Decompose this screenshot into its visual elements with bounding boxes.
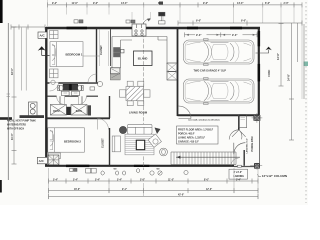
svg-text:2'-0": 2'-0" [284, 2, 289, 5]
svg-text:WITH GFR BOX: WITH GFR BOX [7, 129, 24, 131]
svg-text:9'-1": 9'-1" [122, 189, 127, 191]
hall wall below baths [60, 96, 82, 104]
svg-text:42'-0": 42'-0" [178, 194, 184, 197]
header garage window 1 [187, 27, 198, 30]
svg-text:PORCH: 405.F: PORCH: 405.F [178, 132, 195, 135]
wall bedroom1 right / closet [96, 29, 98, 83]
svg-text:PORCH 405.F: PORCH 405.F [251, 136, 254, 152]
svg-text:5'-4": 5'-4" [117, 178, 122, 181]
extension lines from top dims [48, 0, 303, 99]
island [134, 51, 153, 66]
right dim line C [297, 23, 299, 62]
porch inner wall [243, 150, 245, 166]
svg-text:12'-0": 12'-0" [206, 189, 212, 191]
svg-text:FIRST FLOOR AREA: 1,700S.F: FIRST FLOOR AREA: 1,700S.F [178, 128, 214, 131]
svg-text:TWO CAR GARAGE 4" SLP: TWO CAR GARAGE 4" SLP [194, 70, 227, 73]
scan edge mark left middle [0, 117, 12, 120]
svg-text:GARAGE: 410 S.F: GARAGE: 410 S.F [178, 140, 199, 143]
bench at foot [49, 153, 61, 159]
chair top2 [138, 81, 144, 86]
svg-text:5'-4": 5'-4" [73, 178, 78, 181]
svg-text:9'-2": 9'-2" [52, 2, 57, 5]
left corner dim line [11, 26, 45, 28]
svg-text:14'-0": 14'-0" [237, 2, 244, 5]
foyer wall [238, 116, 240, 131]
sink double [114, 48, 121, 52]
A/C pad hatched [48, 155, 59, 165]
rug hatched [125, 134, 154, 155]
chair bottom1 [127, 101, 133, 106]
svg-text:9'-0": 9'-0" [241, 20, 246, 23]
svg-text:BATH: BATH [53, 110, 60, 113]
right dim line B [291, 23, 293, 140]
counter right run [158, 37, 167, 65]
svg-text:5'-4": 5'-4" [236, 178, 241, 181]
window headers on top wall [66, 27, 260, 167]
foyer door leaf [239, 130, 246, 140]
svg-text:9'-0": 9'-0" [232, 34, 238, 37]
garage interior dim 9-0 / 9-0 [185, 32, 258, 37]
shower center bar [69, 84, 72, 91]
foyer door leaf left [229, 130, 239, 140]
svg-text:5'-4": 5'-4" [95, 178, 100, 181]
left wall [45, 27, 47, 167]
vanity 1 [50, 105, 66, 116]
svg-text:BEDROOM 1: BEDROOM 1 [66, 52, 83, 56]
svg-text:11'-6": 11'-6" [72, 2, 78, 5]
scan edge bar top-left [0, 0, 3, 23]
closet shelf lines [100, 29, 109, 66]
A/C box bottom [37, 157, 47, 163]
svg-text:40GAL. HEAT PUMP TANK: 40GAL. HEAT PUMP TANK [7, 120, 36, 123]
bed1 mid line to wall [83, 55, 100, 57]
garage left wall [177, 29, 179, 116]
right dim line D [303, 24, 305, 99]
bottom wall [45, 165, 234, 167]
chair left [120, 90, 126, 97]
svg-text:9'-0": 9'-0" [203, 2, 208, 5]
wall bedroom1 / baths [47, 82, 98, 84]
left seat [112, 136, 120, 152]
hexagon tags row [101, 171, 104, 175]
svg-text:LIVING ROOM: LIVING ROOM [129, 110, 148, 114]
bedroom2 closet door arc [98, 119, 109, 130]
dark vent tag [159, 12, 166, 16]
steps direction arrow [176, 156, 240, 158]
svg-text:12'-6": 12'-6" [276, 52, 280, 60]
svg-text:6'-0": 6'-0" [265, 2, 270, 5]
scan edge bar bottom-left [0, 180, 2, 193]
svg-text:8'-0": 8'-0" [204, 179, 209, 181]
garage door band 1 on right wall [258, 31, 261, 46]
garage right wall [258, 27, 260, 116]
chair top1 [127, 81, 133, 86]
left small border tick [7, 94, 11, 97]
column bottom (12x12) [250, 163, 262, 170]
header garage window 2 [230, 27, 242, 30]
svg-text:12"x12" COLUMN: 12"x12" COLUMN [262, 174, 287, 178]
column top (12x12) [252, 113, 263, 123]
A/C box top [38, 32, 47, 38]
svg-text:9'-0": 9'-0" [93, 2, 98, 5]
svg-text:5'-8": 5'-8" [140, 179, 145, 181]
bath door arc 1 [57, 97, 65, 105]
left patio double line [22, 28, 27, 91]
sheet left border [7, 23, 9, 180]
bedroom2 right wall [109, 96, 111, 166]
garage bottom wall [178, 114, 259, 116]
top dim labels [52, 2, 289, 23]
svg-text:WATERHEATERS: WATERHEATERS [7, 124, 26, 127]
door tag circle bed1 [97, 81, 102, 86]
bed 2 [48, 128, 85, 152]
counter left run [112, 37, 132, 69]
header bedroom1 window [67, 27, 88, 30]
svg-text:CONC: CONC [268, 69, 271, 77]
bath fixture boxes [61, 91, 69, 95]
svg-text:11'-0": 11'-0" [168, 179, 174, 181]
dark mark on vent line top [159, 2, 163, 5]
dining table hatched [126, 86, 144, 100]
closet right wall [110, 29, 112, 66]
dark bar above heater note [20, 115, 45, 118]
right dim line A [280, 24, 282, 87]
left edge verticals of dim rows [49, 168, 259, 199]
wall chunk right of vanity2 [88, 105, 91, 115]
counter top run [112, 36, 167, 38]
tag box hall [90, 87, 95, 90]
bath1 door arc [50, 82, 59, 91]
top wall [46, 27, 260, 30]
svg-text:16'-0": 16'-0" [10, 67, 14, 75]
svg-text:5'-4": 5'-4" [53, 178, 58, 181]
dim row 3 [49, 196, 259, 198]
svg-text:3' x4'-6": 3' x4'-6" [234, 171, 243, 174]
top dimension line [48, 4, 303, 6]
svg-text:CLOSET: CLOSET [102, 138, 105, 148]
top dim ticks [48, 2, 303, 7]
garage door band 2 on right wall [258, 64, 261, 82]
svg-text:LANDING 2 1/2": LANDING 2 1/2" [246, 138, 249, 154]
plant [119, 126, 126, 133]
vanity 2 [71, 105, 87, 116]
dim row labels [53, 178, 241, 196]
left dim line [13, 27, 15, 164]
svg-text:LIVING AREA: 1,337S.F: LIVING AREA: 1,337S.F [178, 136, 206, 139]
wall baths / bedroom2 [47, 117, 110, 119]
dresser top [50, 31, 59, 39]
right dim labels (rotated) [276, 52, 291, 81]
front door arc [234, 143, 246, 155]
svg-text:11'-0": 11'-0" [10, 132, 14, 140]
dark wedge side table [155, 128, 161, 135]
W/D box [111, 68, 121, 80]
toilet 1 [58, 85, 60, 90]
window seg on bottom wall [66, 165, 89, 167]
foyer round table [160, 148, 168, 156]
section line vertical [143, 22, 145, 170]
dresser bottom [50, 69, 59, 78]
svg-text:CLOSET: CLOSET [100, 45, 103, 55]
porch bottom edge [234, 166, 260, 168]
second top dim line over garage [178, 22, 302, 24]
sheet right dotted edge [305, 2, 307, 203]
svg-text:14'-0": 14'-0" [121, 2, 128, 5]
car 1 [184, 39, 255, 66]
teal scan mark right edge [304, 62, 309, 67]
svg-text:24'-8": 24'-8" [287, 73, 291, 81]
svg-text:BEDROOM 2: BEDROOM 2 [64, 140, 81, 144]
svg-text:9'-0": 9'-0" [196, 20, 201, 23]
water heater box [29, 102, 38, 116]
door garage to foyer [179, 106, 192, 119]
chair right [144, 90, 150, 97]
range [132, 24, 146, 36]
window seg bottom wall living [134, 165, 149, 167]
porch outer edge [259, 121, 261, 164]
column label with leader [258, 174, 262, 177]
svg-text:A/C: A/C [40, 34, 46, 38]
landing box [229, 158, 248, 179]
car 2 [184, 78, 255, 105]
curved arrow tag [143, 19, 150, 23]
toilet 2 [81, 85, 83, 90]
coffee table [136, 140, 144, 150]
tag circle bath [51, 80, 55, 84]
bed 1 [50, 42, 83, 67]
north arrow [38, 46, 50, 55]
bath door arc 2 [78, 97, 86, 105]
dim row 1 [49, 180, 259, 182]
fridge / pantry stack [167, 63, 177, 72]
svg-text:A/C: A/C [39, 159, 45, 163]
svg-text:BATH: BATH [76, 110, 83, 113]
shower 1 [63, 84, 69, 90]
svg-text:next wall, windows & all: next wall, windows & all below [188, 119, 220, 122]
sofa [128, 124, 153, 134]
shower 2 [72, 84, 78, 90]
driveway arrow [256, 47, 272, 53]
wall between back-to-back baths [47, 95, 98, 97]
bedroom1 entry door arc [88, 74, 97, 83]
dim row 2 [49, 190, 259, 192]
foyer closet [239, 115, 247, 128]
chair bottom2 [138, 101, 144, 106]
svg-text:16'-0": 16'-0" [74, 189, 80, 191]
svg-text:ISLAND: ISLAND [138, 57, 148, 61]
svg-text:9'-0": 9'-0" [196, 34, 202, 37]
svg-text:LANDING: LANDING [234, 175, 245, 178]
center wall chunk [67, 107, 71, 115]
armchair rotated [148, 134, 161, 147]
